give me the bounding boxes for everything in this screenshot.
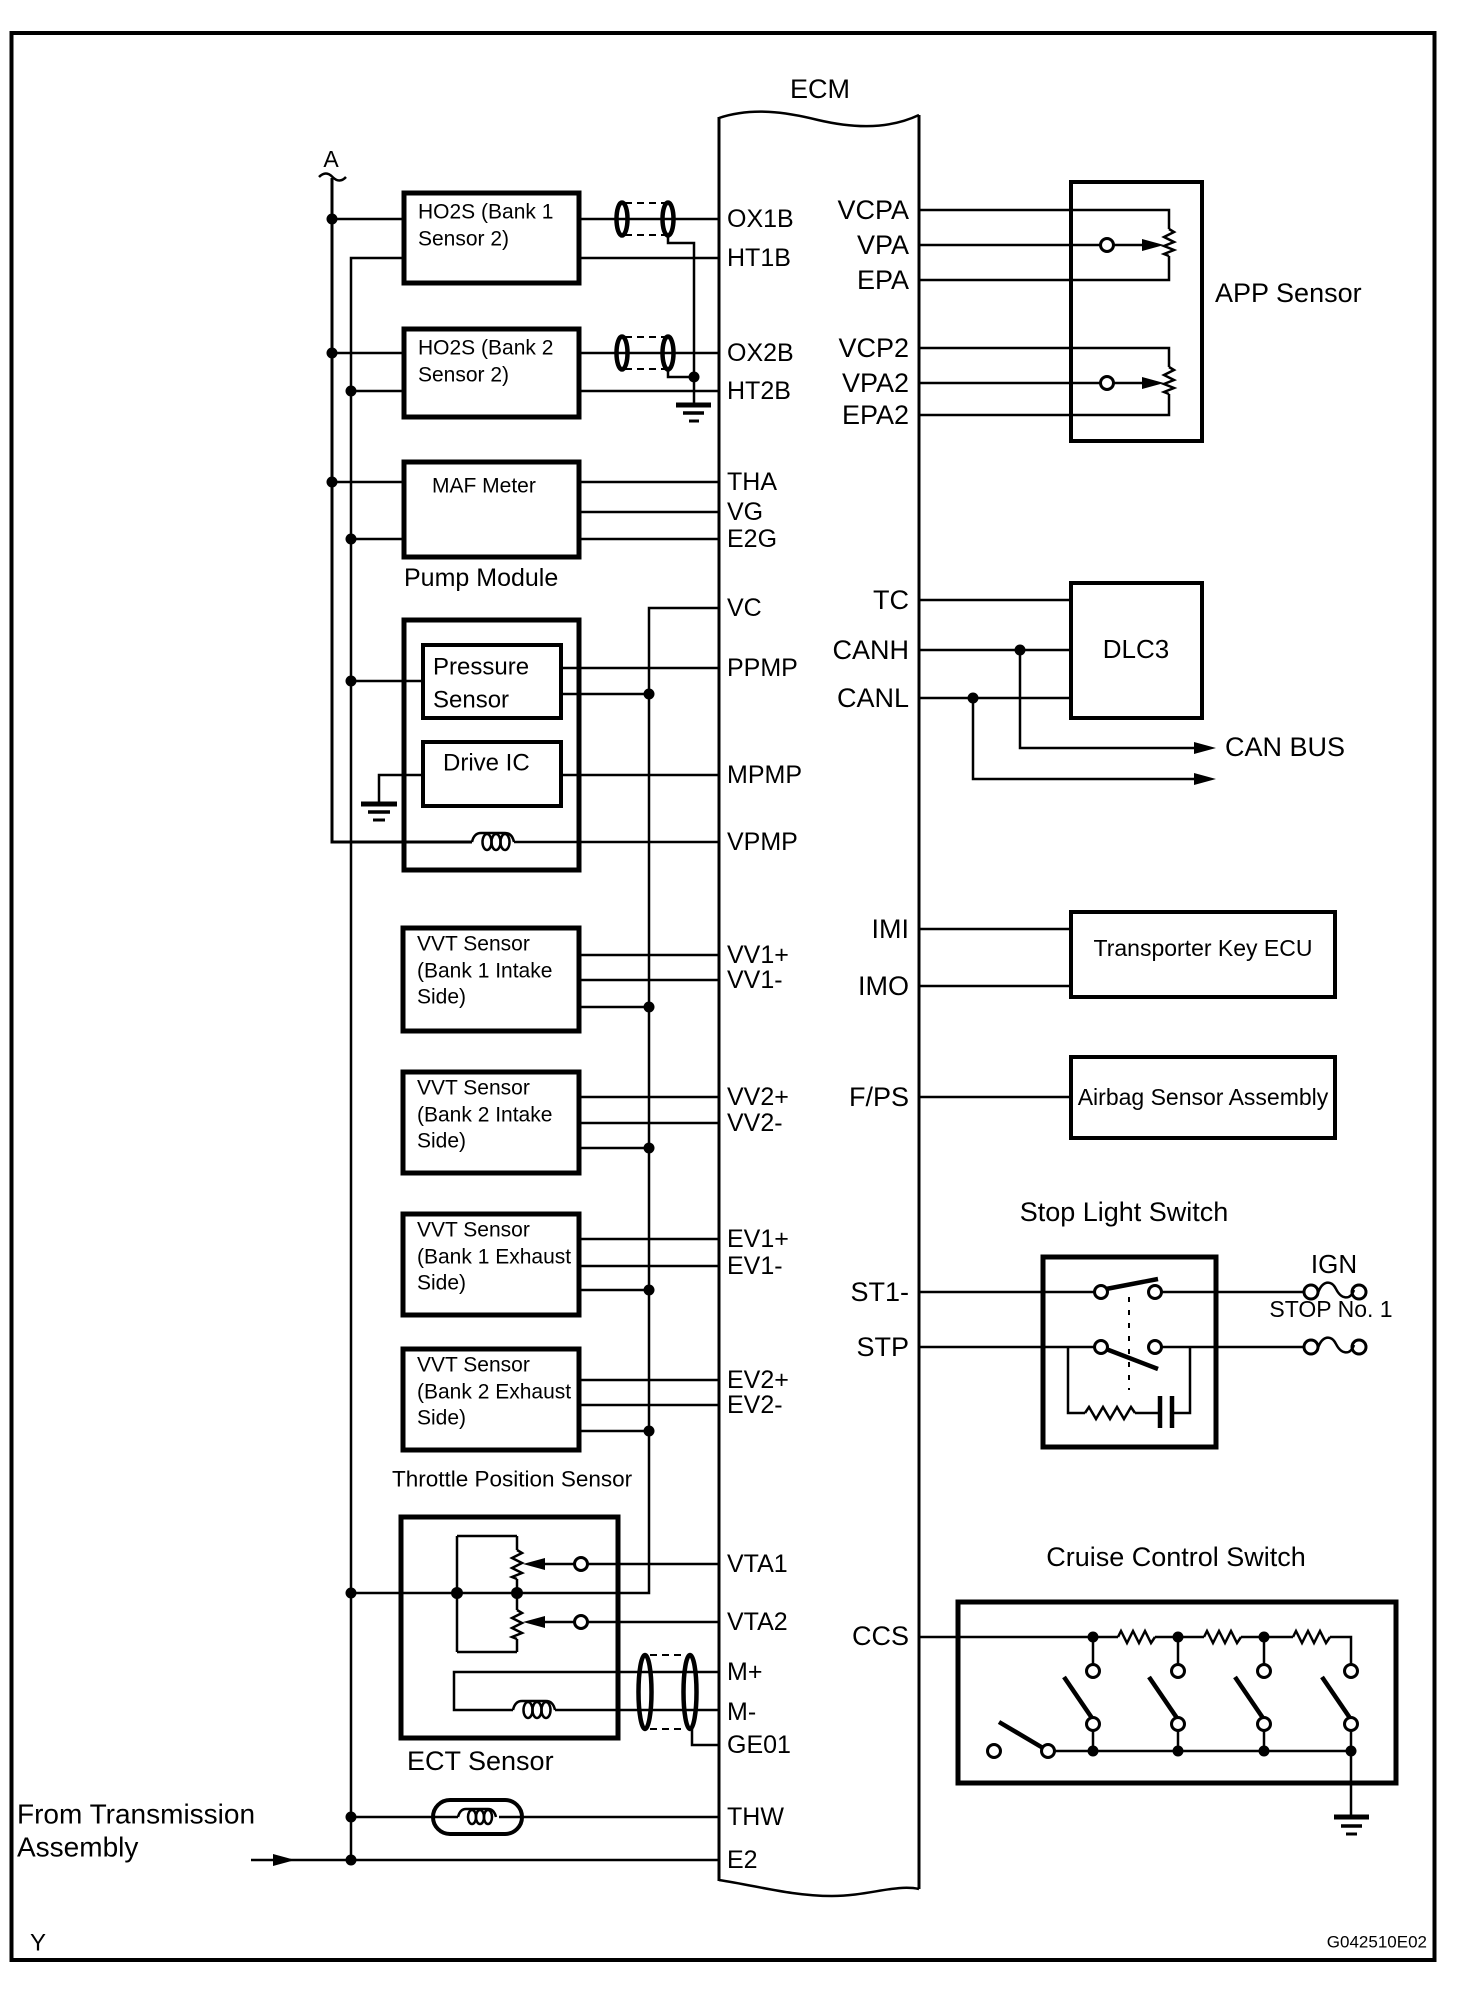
twisted pair shield M+/M- <box>639 1655 697 1729</box>
svg-text:(Bank 1 Exhaust: (Bank 1 Exhaust <box>417 1246 571 1269</box>
svg-text:Sensor: Sensor <box>433 687 509 714</box>
svg-text:Sensor 2): Sensor 2) <box>418 228 509 251</box>
cruise resistor ladder top <box>1093 1636 1118 1639</box>
svg-text:Side): Side) <box>417 986 466 1009</box>
svg-text:Sensor 2): Sensor 2) <box>418 364 509 387</box>
svg-text:HO2S (Bank 2: HO2S (Bank 2 <box>418 337 553 360</box>
svg-text:THA: THA <box>727 468 777 496</box>
wire VVT2 VC feed <box>579 1147 649 1150</box>
junction bus E2 / E2G <box>346 534 357 545</box>
wire CANL to CAN BUS <box>973 698 1198 779</box>
fuse STP circuit <box>1304 1338 1366 1354</box>
junction bus E2 / throttle pot <box>346 1588 357 1599</box>
svg-text:ST1-: ST1- <box>850 1277 909 1307</box>
wire E2G left <box>351 538 404 541</box>
wire cruise ground <box>1350 1751 1353 1815</box>
wiper arrow VPA2 <box>1142 377 1164 389</box>
svg-text:OX1B: OX1B <box>727 205 794 233</box>
svg-text:STP: STP <box>856 1332 909 1362</box>
junction VC / VVT1 <box>644 1002 655 1013</box>
svg-text:VTA1: VTA1 <box>727 1550 788 1578</box>
svg-text:Throttle Position Sensor: Throttle Position Sensor <box>392 1467 633 1492</box>
svg-text:CANL: CANL <box>837 683 909 713</box>
svg-text:APP Sensor: APP Sensor <box>1215 278 1362 308</box>
wire EPA2 <box>919 394 1169 415</box>
wire VTA1 <box>587 1563 719 1566</box>
HO2S bank2 sensor2 box <box>404 329 579 417</box>
svg-text:EV2+: EV2+ <box>727 1366 789 1394</box>
VVT sensor bank1 intake box <box>403 928 579 1031</box>
wire EPA <box>919 256 1169 280</box>
wire Drive IC ground <box>379 775 423 803</box>
junction bus A / OX2B <box>327 348 338 359</box>
main switch blade <box>999 1722 1043 1748</box>
ground Drive IC <box>361 804 397 820</box>
ground cruise switch <box>1334 1817 1369 1834</box>
wiper arrow VTA2 <box>523 1616 545 1628</box>
stubs lower <box>1092 1730 1095 1751</box>
wire EV1- <box>579 1265 719 1268</box>
switch blades cruise <box>1064 1677 1094 1721</box>
ground shield <box>676 405 711 421</box>
svg-text:HT1B: HT1B <box>727 244 791 272</box>
wire bus A to HO2S2 <box>332 352 404 355</box>
junction VC / VVT2 <box>644 1143 655 1154</box>
wire VVT3 VC feed <box>579 1289 649 1292</box>
svg-text:EV2-: EV2- <box>727 1391 783 1419</box>
VVT sensor bank2 intake box <box>403 1072 579 1173</box>
wire EV2- <box>579 1404 719 1407</box>
fuse STOP No.1 <box>1304 1283 1366 1299</box>
svg-text:HO2S (Bank 1: HO2S (Bank 1 <box>418 201 553 224</box>
wire shield2 drain <box>668 369 694 377</box>
throttle pot track <box>457 1536 517 1652</box>
wire VPA2 <box>919 382 1100 385</box>
svg-text:VVT Sensor: VVT Sensor <box>417 1354 530 1377</box>
svg-text:VV2-: VV2- <box>727 1109 783 1137</box>
svg-text:Cruise Control Switch: Cruise Control Switch <box>1046 1542 1306 1572</box>
resistor APP pot1 <box>1164 229 1174 256</box>
svg-text:E2: E2 <box>727 1846 758 1874</box>
svg-text:CANH: CANH <box>832 635 909 665</box>
svg-text:VCP2: VCP2 <box>838 333 909 363</box>
wire VCP2 <box>919 348 1169 367</box>
svg-text:VTA2: VTA2 <box>727 1608 788 1636</box>
junction bus E2 / E2 <box>346 1855 357 1866</box>
wire EV1+ <box>579 1238 719 1241</box>
svg-text:From Transmission: From Transmission <box>17 1799 255 1830</box>
resistor cruise R2 <box>1204 1631 1241 1643</box>
junction bus A / OX1B <box>327 214 338 225</box>
wire pressure sensor VC feed <box>561 693 649 696</box>
svg-text:THW: THW <box>727 1803 784 1831</box>
VVT sensor bank2 exhaust box <box>403 1349 579 1450</box>
wire CANH <box>919 649 1071 652</box>
connector circle VPA <box>1101 239 1114 252</box>
svg-text:(Bank 1 Intake: (Bank 1 Intake <box>417 960 552 983</box>
svg-text:VVT Sensor: VVT Sensor <box>417 1077 530 1100</box>
svg-text:Pressure: Pressure <box>433 654 529 681</box>
junction CANH <box>1015 645 1026 656</box>
ECM left pin labels <box>727 205 802 1874</box>
wire THW <box>351 1816 458 1819</box>
junction CANL <box>968 693 979 704</box>
twisted pair shield OX1B <box>617 203 674 236</box>
svg-text:(Bank 2 Intake: (Bank 2 Intake <box>417 1104 552 1127</box>
svg-text:VC: VC <box>727 594 762 622</box>
wire ST1- <box>919 1291 1094 1294</box>
wire F/PS <box>919 1096 1071 1099</box>
wire M+ <box>454 1672 719 1710</box>
MAF Meter box <box>404 462 579 557</box>
svg-text:VCPA: VCPA <box>837 195 909 225</box>
svg-text:ECM: ECM <box>790 74 850 104</box>
ECM right pin labels <box>832 195 909 1651</box>
svg-text:OX2B: OX2B <box>727 339 794 367</box>
wire CANH to CAN BUS <box>1020 650 1198 748</box>
svg-text:M+: M+ <box>727 1658 762 1686</box>
wire VV2- <box>579 1122 719 1125</box>
connector circle VTA1 <box>575 1558 588 1571</box>
wire STP <box>919 1346 1094 1349</box>
junction bus E2 / THW <box>346 1812 357 1823</box>
svg-text:GE01: GE01 <box>727 1731 791 1759</box>
svg-text:G042510E02: G042510E02 <box>1327 1933 1427 1952</box>
junctions cruise ladder <box>1088 1632 1099 1643</box>
svg-text:CAN BUS: CAN BUS <box>1225 732 1345 762</box>
svg-text:IMI: IMI <box>872 914 910 944</box>
node A label <box>319 146 346 181</box>
wire HT2B left <box>351 390 404 393</box>
svg-text:VV1+: VV1+ <box>727 941 789 969</box>
svg-text:E2G: E2G <box>727 525 777 553</box>
Airbag Sensor Assembly box <box>1071 1057 1335 1138</box>
wire bus A to MAF <box>332 481 404 484</box>
wire IMO <box>919 985 1071 988</box>
wire E2G <box>579 538 719 541</box>
svg-text:Side): Side) <box>417 1272 466 1295</box>
svg-text:VPMP: VPMP <box>727 828 798 856</box>
thermistor ECT <box>433 1800 522 1834</box>
svg-text:EV1+: EV1+ <box>727 1225 789 1253</box>
svg-text:TC: TC <box>873 585 909 615</box>
DLC3 box <box>1071 583 1202 718</box>
svg-text:VG: VG <box>727 498 763 526</box>
wire VPMP <box>514 841 719 844</box>
svg-text:HT2B: HT2B <box>727 377 791 405</box>
wire EV2+ <box>579 1379 719 1382</box>
svg-text:Side): Side) <box>417 1407 466 1430</box>
APP Sensor box <box>1071 182 1202 441</box>
svg-text:Y: Y <box>30 1930 46 1957</box>
svg-text:ECT Sensor: ECT Sensor <box>407 1746 554 1776</box>
HO2S bank1 sensor2 box <box>404 193 579 283</box>
wire IMI <box>919 928 1071 931</box>
wire VPA <box>919 244 1100 247</box>
Pressure Sensor box <box>423 645 561 718</box>
bus E2 (sensor ground bus) <box>351 258 404 1860</box>
wire VC <box>351 608 719 1593</box>
resistor cruise R1 <box>1118 1631 1155 1643</box>
junction bus E2 / HT2B <box>346 386 357 397</box>
svg-text:IGN: IGN <box>1311 1249 1357 1279</box>
resistor snubber <box>1085 1407 1135 1419</box>
wire TC <box>919 599 1071 602</box>
Pump Module box <box>404 620 579 870</box>
svg-text:Drive IC: Drive IC <box>443 750 530 777</box>
wire E2 <box>251 1859 719 1862</box>
Cruise Control Switch box <box>958 1602 1396 1783</box>
svg-text:Stop Light Switch: Stop Light Switch <box>1020 1197 1229 1227</box>
svg-text:VPA2: VPA2 <box>842 368 909 398</box>
inductor pump solenoid <box>472 833 514 850</box>
wiper arrow VTA1 <box>523 1558 545 1570</box>
RC snubber branch <box>1068 1347 1085 1413</box>
wire VTA2 <box>587 1621 719 1624</box>
switch blade ST1- <box>1106 1279 1158 1289</box>
wire M- <box>555 1709 719 1712</box>
svg-text:EPA2: EPA2 <box>842 400 909 430</box>
contact circles ST1- <box>1095 1286 1108 1299</box>
junction bus A / THA <box>327 477 338 488</box>
connector circle VTA2 <box>575 1616 588 1629</box>
svg-text:IMO: IMO <box>858 971 909 1001</box>
svg-text:MAF Meter: MAF Meter <box>432 475 536 498</box>
Throttle body box <box>401 1517 618 1738</box>
svg-text:VVT Sensor: VVT Sensor <box>417 933 530 956</box>
svg-text:Assembly: Assembly <box>17 1832 138 1863</box>
wire VV2+ <box>579 1096 719 1099</box>
wire OX1B <box>579 218 719 221</box>
VVT sensor bank1 exhaust box <box>403 1214 579 1315</box>
junction shield drains <box>689 372 700 383</box>
resistor pot element 1 <box>512 1550 522 1579</box>
wiper arrow VPA <box>1142 239 1164 251</box>
junction VC / VVT3 <box>644 1285 655 1296</box>
wire PPMP <box>561 667 719 670</box>
arrow CAN BUS L <box>1194 773 1216 785</box>
svg-text:Pump Module: Pump Module <box>404 564 558 592</box>
wire VV1+ <box>579 954 719 957</box>
svg-text:VV1-: VV1- <box>727 966 783 994</box>
wire VV1- <box>579 979 719 982</box>
stubs to upper contacts <box>1092 1637 1095 1664</box>
connector circle VPA2 <box>1101 377 1114 390</box>
dashed link stop light switch <box>1128 1297 1130 1390</box>
wire HT1B <box>579 257 719 260</box>
svg-text:STOP No. 1: STOP No. 1 <box>1269 1296 1392 1322</box>
wire CCS <box>919 1636 1093 1639</box>
wire bus A to HO2S1 <box>332 218 404 221</box>
wire VCPA <box>919 210 1169 229</box>
svg-text:(Bank 2 Exhaust: (Bank 2 Exhaust <box>417 1381 571 1404</box>
Transporter Key ECU box <box>1071 912 1335 997</box>
svg-text:Side): Side) <box>417 1130 466 1153</box>
capacitor snubber <box>1158 1396 1163 1428</box>
junction pot left / E2 <box>451 1587 463 1599</box>
svg-text:CCS: CCS <box>852 1621 909 1651</box>
wire HT2B <box>579 390 719 393</box>
Stop Light Switch box <box>1043 1257 1216 1447</box>
switch blade STP <box>1106 1349 1158 1369</box>
twisted pair shield OX2B <box>617 337 674 370</box>
main switch contact circles <box>1042 1745 1055 1758</box>
svg-text:DLC3: DLC3 <box>1103 634 1169 664</box>
junction VC / VVT4 <box>644 1426 655 1437</box>
svg-text:Transporter Key ECU: Transporter Key ECU <box>1094 935 1313 961</box>
inductor throttle motor <box>513 1701 555 1718</box>
svg-text:F/PS: F/PS <box>849 1082 909 1112</box>
lower contact circles <box>1087 1718 1100 1731</box>
svg-text:EPA: EPA <box>857 265 909 295</box>
wire GE01 shield drain <box>692 1729 719 1745</box>
wire pressure sensor ground <box>351 680 423 683</box>
svg-text:A: A <box>323 146 339 172</box>
arrow CAN BUS H <box>1194 742 1216 754</box>
wire OX2B <box>579 352 719 355</box>
wire VG <box>579 511 719 514</box>
contact circles STP <box>1095 1341 1108 1354</box>
svg-text:M-: M- <box>727 1698 756 1726</box>
svg-text:Airbag Sensor Assembly: Airbag Sensor Assembly <box>1078 1084 1329 1110</box>
cruise common wire <box>1054 1750 1351 1753</box>
junction pot center tap / VC <box>511 1587 523 1599</box>
upper contact circles <box>1087 1665 1100 1678</box>
ECM U1 body <box>719 112 919 1896</box>
junction bus E2 / pressure sensor <box>346 676 357 687</box>
bus A (main relay feed) <box>332 178 472 842</box>
resistor APP pot2 <box>1164 367 1174 394</box>
arrow E2 flow <box>273 1854 295 1866</box>
svg-text:VV2+: VV2+ <box>727 1083 789 1111</box>
wire MPMP <box>561 774 719 777</box>
svg-text:MPMP: MPMP <box>727 761 802 789</box>
svg-text:EV1-: EV1- <box>727 1252 783 1280</box>
wire THA <box>579 481 719 484</box>
Drive IC box <box>423 742 561 806</box>
svg-text:VPA: VPA <box>857 230 909 260</box>
resistor pot element 2 <box>512 1610 522 1639</box>
junction VC / pressure sensor <box>644 689 655 700</box>
wire CANL <box>919 697 1071 700</box>
svg-text:VVT Sensor: VVT Sensor <box>417 1219 530 1242</box>
wire VVT4 VC feed <box>579 1430 649 1433</box>
resistor cruise R3 <box>1293 1631 1330 1643</box>
wire VVT1 VC feed <box>579 1006 649 1009</box>
wire shield1 drain <box>668 235 694 404</box>
svg-text:PPMP: PPMP <box>727 654 798 682</box>
